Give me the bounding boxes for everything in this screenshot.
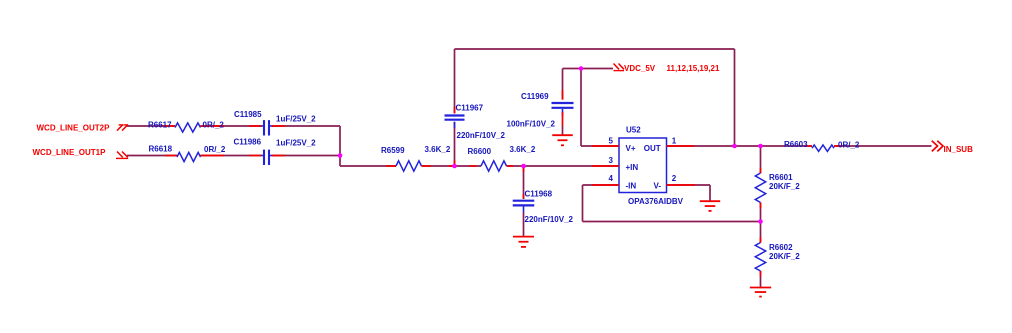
svg-text:R6618: R6618 <box>149 145 173 154</box>
svg-text:R6599: R6599 <box>381 146 405 155</box>
svg-text:0R/_2: 0R/_2 <box>204 145 226 154</box>
svg-text:20K/F_2: 20K/F_2 <box>769 182 800 191</box>
svg-text:VDC_5V: VDC_5V <box>624 64 656 73</box>
svg-text:20K/F_2: 20K/F_2 <box>769 252 800 261</box>
svg-text:1: 1 <box>672 137 677 146</box>
svg-text:3.6K_2: 3.6K_2 <box>425 145 451 154</box>
svg-text:R6602: R6602 <box>769 243 793 252</box>
svg-text:0R/_2: 0R/_2 <box>203 120 225 129</box>
svg-text:IN_SUB: IN_SUB <box>944 145 974 154</box>
svg-text:1uF/25V_2: 1uF/25V_2 <box>276 139 316 148</box>
svg-text:R6601: R6601 <box>769 173 793 182</box>
svg-text:C11986: C11986 <box>234 137 262 146</box>
svg-text:C11967: C11967 <box>456 104 484 113</box>
svg-text:100nF/10V_2: 100nF/10V_2 <box>507 119 556 128</box>
svg-text:WCD_LINE_OUT2P: WCD_LINE_OUT2P <box>37 124 111 133</box>
svg-text:R6617: R6617 <box>148 120 172 129</box>
svg-text:OUT: OUT <box>644 144 661 153</box>
svg-text:3.6K_2: 3.6K_2 <box>510 145 536 154</box>
svg-text:11,12,15,19,21: 11,12,15,19,21 <box>667 64 720 73</box>
svg-text:0R/_2: 0R/_2 <box>838 141 860 150</box>
svg-text:220nF/10V_2: 220nF/10V_2 <box>457 131 506 140</box>
svg-text:OPA376AIDBV: OPA376AIDBV <box>628 197 684 206</box>
svg-text:V+: V+ <box>626 144 636 153</box>
svg-text:-IN: -IN <box>626 181 637 190</box>
svg-text:C11985: C11985 <box>234 110 262 119</box>
svg-text:1uF/25V_2: 1uF/25V_2 <box>276 114 316 123</box>
svg-text:WCD_LINE_OUT1P: WCD_LINE_OUT1P <box>33 148 107 157</box>
svg-text:5: 5 <box>609 137 614 146</box>
svg-text:C11968: C11968 <box>525 189 553 198</box>
svg-text:V-: V- <box>654 181 662 190</box>
svg-text:2: 2 <box>672 174 677 183</box>
svg-text:C11969: C11969 <box>521 92 549 101</box>
svg-text:R6600: R6600 <box>468 147 492 156</box>
svg-text:3: 3 <box>609 156 614 165</box>
svg-text:220nF/10V_2: 220nF/10V_2 <box>525 215 574 224</box>
svg-text:R6603: R6603 <box>784 140 808 149</box>
svg-text:U52: U52 <box>626 126 641 135</box>
svg-text:4: 4 <box>609 174 614 183</box>
svg-text:+IN: +IN <box>626 163 639 172</box>
